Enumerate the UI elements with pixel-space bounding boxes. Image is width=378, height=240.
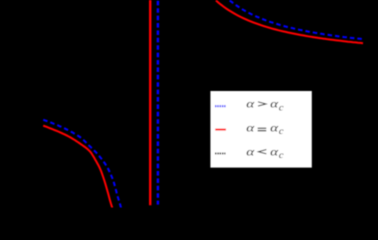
svg-text:α: α: [246, 121, 255, 134]
vertical asymptote line: red solid: [149, 0, 151, 205]
curve: red solid alpha=alpha_c lower-left branch: [43, 126, 113, 210]
legend sample: blue dashed line: [215, 105, 226, 107]
curve: blue dashed alpha>alpha_c upper-right branch: [230, 0, 363, 39]
vertical asymptote line: blue dashed: [157, 1, 159, 205]
curve: red solid alpha=alpha_c upper-right branch: [216, 0, 363, 43]
curve: blue dashed alpha>alpha_c lower-left branch: [43, 120, 121, 209]
svg-text:c: c: [279, 127, 284, 137]
svg-text:α: α: [270, 121, 279, 134]
svg-text:c: c: [279, 151, 284, 161]
legend sample: red solid line: [215, 129, 226, 131]
svg-text:α: α: [270, 97, 279, 110]
legend sample: black dashed line: [215, 152, 225, 154]
svg-text:α: α: [246, 145, 255, 158]
svg-text:α: α: [246, 97, 255, 110]
legend box: [210, 91, 311, 168]
svg-text:α: α: [270, 145, 279, 158]
svg-text:c: c: [279, 103, 284, 113]
